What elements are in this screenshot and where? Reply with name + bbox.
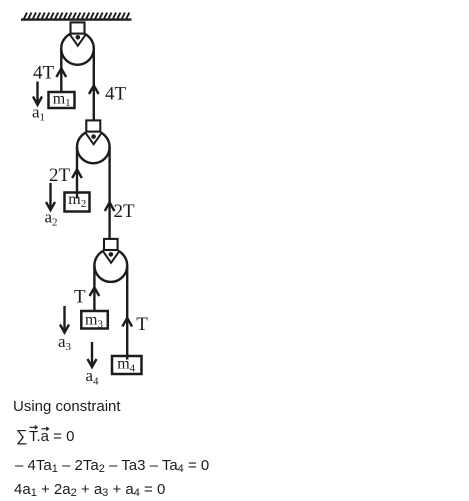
- wire: right rope of P1 down to bracket of P2: [93, 49, 95, 121]
- svg-text:4a1 + 2a2 + a3 + a4 = 0: 4a1 + 2a2 + a3 + a4 = 0: [14, 481, 165, 499]
- pulley P3: [94, 249, 127, 282]
- bracket of pulley P1: [71, 22, 85, 33]
- pulley P2: [77, 131, 110, 164]
- svg-text:4T: 4T: [105, 84, 127, 105]
- pulley P3 groove notch: [103, 251, 120, 263]
- pulley P2 groove notch: [85, 132, 102, 144]
- pulley P1: [61, 32, 94, 65]
- wire: right rope of P2 down to bracket of P3: [108, 147, 110, 239]
- pulley P1 axle dot: [76, 35, 81, 40]
- ceiling hatching: [24, 13, 129, 19]
- bracket of pulley P2: [86, 120, 100, 131]
- pulley P2 axle dot: [91, 134, 96, 139]
- svg-text:T: T: [136, 314, 148, 335]
- arrowhead up 2T on right rope of P2: [105, 202, 115, 211]
- wire: left rope of P3 down to m3: [93, 266, 95, 313]
- ceiling line: [21, 18, 132, 20]
- svg-text:T.a = 0: T.a = 0: [29, 428, 74, 445]
- mass m4: [112, 356, 142, 374]
- svg-text:Using constraint: Using constraint: [13, 398, 121, 415]
- wire: left rope of P2 down to m2: [76, 147, 78, 192]
- acceleration arrow a4 (down): [91, 342, 93, 366]
- arrowhead up 4T on right rope of P1: [89, 85, 99, 94]
- acceleration arrow a1 (down): [36, 82, 38, 104]
- bracket of pulley P3: [104, 239, 118, 250]
- svg-text:2T: 2T: [114, 201, 136, 222]
- pulley P1 groove notch: [69, 34, 86, 46]
- acceleration arrow a2 (down): [49, 183, 51, 209]
- svg-text:4T: 4T: [33, 63, 55, 84]
- svg-text:2T: 2T: [49, 165, 71, 186]
- svg-text:T: T: [74, 287, 86, 308]
- vector arrow over a: [42, 428, 49, 430]
- mass m1: [49, 92, 75, 108]
- mass m2: [65, 193, 90, 212]
- arrowhead up T on left rope of P3: [90, 287, 100, 296]
- arrowhead up T on right rope of P3: [122, 318, 132, 327]
- wire: right rope of P3 down to m4: [126, 266, 128, 357]
- pulley P3 axle dot: [109, 252, 114, 257]
- mass m3: [81, 311, 108, 329]
- arrowhead up 4T on left rope of P1: [56, 68, 66, 77]
- vector arrow over T: [30, 426, 37, 428]
- svg-text:∑: ∑: [16, 428, 27, 445]
- acceleration arrow a3 (down): [63, 306, 65, 331]
- arrowhead up 2T on left rope of P2: [72, 169, 82, 178]
- wire: left rope of P1 down to m1: [60, 49, 62, 92]
